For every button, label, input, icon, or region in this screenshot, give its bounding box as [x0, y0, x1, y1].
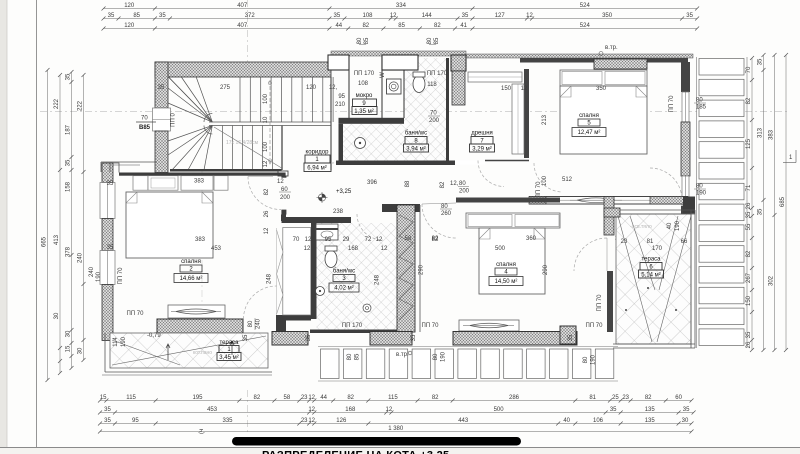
svg-text:ПП 70: ПП 70: [586, 323, 604, 329]
bath8 tiles upper: [404, 58, 446, 124]
vent block bedroom5: [594, 59, 647, 69]
door arc bedroom5 terrace: [650, 168, 682, 200]
svg-text:100: 100: [263, 93, 269, 104]
wall seg bedroom5 bottom left: [529, 197, 546, 205]
pier block A: [328, 55, 349, 70]
svg-text:35: 35: [66, 159, 72, 166]
svg-text:383: 383: [769, 129, 775, 140]
svg-text:30: 30: [54, 312, 60, 319]
svg-text:23: 23: [301, 418, 308, 424]
svg-text:12: 12: [376, 237, 383, 243]
svg-text:23: 23: [301, 395, 308, 401]
svg-text:30: 30: [78, 347, 84, 354]
svg-text:12: 12: [526, 13, 533, 19]
wall corridor bottom: [282, 217, 352, 223]
svg-text:82: 82: [254, 395, 261, 401]
svg-text:82: 82: [347, 395, 354, 401]
svg-text:14,50 м²: 14,50 м²: [495, 279, 518, 285]
svg-text:82: 82: [362, 23, 369, 29]
svg-text:126: 126: [336, 418, 347, 424]
svg-text:524: 524: [580, 23, 591, 29]
svg-text:82: 82: [432, 395, 439, 401]
svg-text:95: 95: [325, 237, 332, 243]
svg-text:1 380: 1 380: [388, 426, 404, 432]
right bracket mark: [783, 162, 796, 164]
svg-text:240: 240: [89, 266, 95, 277]
parapet strip middle: [331, 51, 466, 56]
window bedroom5 right 1: [682, 92, 689, 122]
svg-text:238: 238: [333, 209, 344, 215]
svg-text:248: 248: [375, 274, 381, 285]
svg-text:+3,25: +3,25: [336, 189, 352, 195]
svg-text:40: 40: [563, 418, 570, 424]
pier block B redraw: [382, 55, 418, 70]
svg-text:85: 85: [364, 37, 370, 44]
svg-text:407: 407: [237, 3, 248, 9]
wall stair left upper: [155, 62, 168, 108]
pier block B: [382, 55, 418, 70]
wall bedroom4 right top: [604, 197, 614, 236]
washing machine: [387, 79, 402, 94]
bed4 note top: [440, 208, 452, 210]
svg-text:95: 95: [132, 418, 139, 424]
svg-text:114: 114: [113, 337, 119, 347]
svg-text:82: 82: [264, 188, 270, 195]
svg-text:35: 35: [104, 407, 111, 413]
svg-text:190: 190: [441, 351, 447, 362]
svg-text:80: 80: [433, 353, 439, 360]
svg-text:115: 115: [126, 395, 136, 401]
sheet border left: [36, 0, 38, 448]
dimension columns right: [751, 58, 753, 350]
svg-text:453: 453: [211, 246, 222, 252]
parapet strip right: [466, 54, 693, 58]
svg-text:85: 85: [355, 353, 361, 360]
door arc wardrobe7: [478, 161, 504, 187]
wall bedroom2 corner SE: [276, 315, 311, 321]
wall bedroom5 right upper: [681, 62, 690, 92]
wardrobe7 wall bottom: [455, 161, 485, 165]
svg-text:12: 12: [390, 13, 397, 19]
svg-text:158: 158: [66, 181, 72, 192]
svg-text:30: 30: [682, 418, 689, 424]
svg-text:290: 290: [543, 264, 549, 275]
wall seg bedroom5 bottom right: [650, 197, 688, 205]
bath3 toilet: [325, 251, 337, 268]
svg-text:41: 41: [460, 23, 467, 29]
svg-text:тераса: тераса: [641, 257, 661, 263]
svg-text:135: 135: [645, 407, 656, 413]
svg-text:82: 82: [434, 23, 441, 29]
svg-text:524: 524: [580, 3, 591, 9]
sill mid 1: [272, 332, 308, 346]
dimension row top 1: [104, 8, 698, 10]
wall bedroom4 left: [419, 205, 421, 332]
top window labels A: [359, 44, 366, 46]
svg-text:ПП 70: ПП 70: [127, 311, 145, 317]
terrace6 right rail: [690, 210, 692, 348]
svg-text:168: 168: [345, 407, 356, 413]
svg-text:185: 185: [696, 105, 707, 111]
svg-text:200: 200: [429, 118, 440, 124]
svg-text:12: 12: [277, 179, 284, 185]
svg-text:334: 334: [396, 3, 407, 9]
svg-text:35: 35: [610, 407, 617, 413]
svg-text:35: 35: [758, 58, 764, 65]
svg-text:512: 512: [562, 177, 573, 183]
svg-text:413: 413: [54, 234, 60, 245]
bed4 body: [479, 228, 545, 294]
svg-text:210: 210: [335, 102, 346, 108]
svg-text:35: 35: [107, 245, 114, 251]
bath3 drain: [363, 304, 371, 312]
sill plant bedroom5: [577, 198, 615, 203]
terrace2 boundary: [104, 333, 106, 372]
bed5 body: [560, 86, 647, 154]
wall bedroom5 bottom: [529, 196, 688, 198]
svg-text:350: 350: [596, 86, 607, 92]
terrace6 note: [620, 242, 632, 244]
bath8 toilet: [413, 76, 425, 93]
wardrobe7 closet side: [512, 84, 524, 154]
svg-text:ПП 70: ПП 70: [118, 267, 124, 285]
svg-text:1,35 м²: 1,35 м²: [354, 109, 373, 115]
svg-text:195: 195: [192, 395, 203, 401]
wall jog left: [101, 161, 157, 163]
svg-text:15: 15: [66, 345, 72, 352]
wall bedroom2 right stub: [281, 210, 286, 215]
svg-text:85: 85: [434, 37, 440, 44]
wall bedroom5 right mid: [681, 122, 690, 176]
svg-text:-0,79: -0,79: [147, 333, 161, 339]
wall bedroom5 top: [520, 58, 688, 63]
bath8 walls: [339, 118, 405, 124]
svg-text:44: 44: [335, 23, 342, 29]
svg-text:60: 60: [281, 187, 288, 193]
svg-text:81: 81: [647, 239, 654, 245]
bath3 tiles: [317, 223, 398, 330]
wall bedroom4 top: [456, 198, 560, 203]
svg-text:120: 120: [306, 85, 317, 91]
svg-text:35: 35: [306, 334, 312, 341]
svg-text:80: 80: [357, 37, 363, 44]
svg-text:443: 443: [458, 418, 469, 424]
svg-text:баня/wc: баня/wc: [333, 269, 355, 275]
svg-text:187: 187: [66, 124, 72, 135]
dimension row bottom 3: [100, 423, 692, 425]
svg-text:35: 35: [104, 418, 111, 424]
wall terrace6 corner NE: [683, 197, 695, 214]
svg-text:286: 286: [509, 395, 520, 401]
svg-text:в.тр.: в.тр.: [396, 352, 409, 358]
svg-text:168: 168: [348, 246, 359, 252]
svg-text:12: 12: [521, 86, 528, 92]
svg-text:ПП 170: ПП 170: [354, 71, 375, 77]
svg-text:80: 80: [441, 204, 448, 210]
svg-text:190: 190: [696, 191, 707, 197]
svg-text:РАЗПРЕДЕЛЕНИЕ НА КОТА +3.25: РАЗПРЕДЕЛЕНИЕ НА КОТА +3.25: [262, 450, 449, 454]
svg-text:383: 383: [195, 237, 206, 243]
svg-text:58: 58: [405, 236, 412, 242]
svg-text:95: 95: [338, 94, 345, 100]
closet row bedroom2: [133, 176, 148, 191]
wall stair left lower: [155, 131, 168, 173]
svg-text:12: 12: [308, 395, 315, 401]
sill mid 3: [453, 332, 577, 346]
svg-text:80: 80: [427, 37, 433, 44]
svg-text:80: 80: [583, 356, 589, 363]
svg-text:ПП 70: ПП 70: [669, 95, 675, 113]
staircase: [330, 77, 332, 170]
room mokro walls: [348, 70, 350, 118]
svg-text:248: 248: [266, 273, 272, 284]
svg-text:396: 396: [367, 180, 378, 186]
door arc bedroom2 upper: [248, 177, 281, 210]
svg-text:12,: 12,: [450, 181, 459, 187]
svg-text:12: 12: [386, 407, 393, 413]
svg-text:W: W: [380, 72, 386, 78]
svg-text:35: 35: [334, 13, 341, 19]
entry door arc: [331, 130, 364, 163]
svg-text:222: 222: [78, 100, 84, 111]
svg-text:ПП 70: ПП 70: [536, 181, 542, 199]
svg-text:170: 170: [652, 246, 663, 252]
window stair left: [153, 108, 171, 131]
svg-text:12,: 12,: [329, 85, 338, 91]
svg-text:кот.пано: кот.пано: [193, 350, 212, 356]
bath3 counter: [316, 224, 338, 240]
svg-text:ПП 70: ПП 70: [597, 294, 603, 312]
bed2 body: [126, 192, 213, 258]
svg-text:ПП 170: ПП 170: [427, 71, 448, 77]
svg-text:82: 82: [645, 395, 652, 401]
svg-text:70: 70: [141, 116, 148, 122]
svg-text:190: 190: [675, 220, 681, 231]
svg-text:15: 15: [100, 395, 107, 401]
bed4 headboard: [466, 213, 560, 228]
svg-text:35: 35: [107, 181, 114, 187]
svg-text:35: 35: [158, 85, 165, 91]
svg-text:29: 29: [343, 237, 350, 243]
svg-text:35: 35: [243, 334, 249, 341]
terrace6 drain dots: [647, 287, 649, 289]
svg-text:200: 200: [280, 195, 291, 201]
svg-text:378: 378: [66, 246, 72, 257]
svg-text:407: 407: [237, 23, 248, 29]
svg-text:60: 60: [675, 395, 682, 401]
svg-text:58: 58: [284, 395, 291, 401]
svg-text:383: 383: [194, 179, 205, 185]
svg-text:В85: В85: [139, 125, 151, 131]
svg-text:82: 82: [432, 236, 439, 242]
svg-text:213: 213: [542, 114, 548, 125]
sill mid 2: [370, 332, 412, 346]
svg-text:6,94 м²: 6,94 м²: [307, 166, 326, 172]
svg-text:3,29 м²: 3,29 м²: [472, 146, 491, 152]
svg-text:190: 190: [591, 354, 597, 365]
wardrobe bedroom2: [283, 228, 311, 316]
svg-text:335: 335: [222, 418, 233, 424]
svg-text:665: 665: [42, 236, 48, 247]
dimension row top 3: [104, 28, 698, 30]
svg-text:200: 200: [459, 189, 470, 195]
svg-text:35: 35: [108, 13, 115, 19]
wall bedroom5 left: [524, 69, 529, 158]
sheet border bottom: [0, 447, 800, 449]
svg-text:40: 40: [667, 222, 673, 229]
svg-text:453: 453: [207, 407, 218, 413]
svg-text:80: 80: [248, 320, 254, 327]
svg-text:12: 12: [308, 418, 315, 424]
svg-text:35: 35: [683, 407, 690, 413]
svg-text:спалня: спалня: [496, 262, 516, 268]
svg-text:685: 685: [780, 196, 786, 207]
svg-text:спалня: спалня: [579, 113, 599, 119]
svg-text:12: 12: [304, 246, 311, 252]
axis dashed vertical stair: [247, 0, 249, 64]
door arc bedroom4: [422, 204, 456, 238]
svg-text:144: 144: [422, 13, 433, 19]
svg-text:3,45 м²: 3,45 м²: [219, 355, 238, 361]
louvre slats bottom: [321, 349, 340, 379]
dimension row bottom 1: [100, 400, 692, 402]
svg-text:ПП 70: ПП 70: [422, 323, 440, 329]
axis dashed vertical bedroom2: [201, 170, 203, 368]
svg-text:12: 12: [308, 407, 315, 413]
bath3 sink: [316, 287, 325, 296]
svg-text:12: 12: [263, 160, 269, 167]
svg-text:500: 500: [495, 246, 506, 252]
svg-text:115: 115: [388, 395, 398, 401]
svg-text:82: 82: [440, 181, 446, 188]
dresser bedroom4: [459, 320, 519, 331]
svg-text:в.тр.: в.тр.: [605, 45, 618, 51]
svg-text:100: 100: [542, 175, 548, 186]
bath3 door arc: [357, 214, 383, 240]
svg-text:23: 23: [621, 239, 628, 245]
sill mid 4: [560, 326, 576, 344]
svg-text:35: 35: [568, 334, 574, 341]
svg-text:3,94 м²: 3,94 м²: [406, 146, 425, 152]
svg-text:127: 127: [495, 13, 506, 19]
window note right 2: [694, 188, 706, 190]
duct wall: [397, 205, 415, 332]
bath8 tiles lower: [343, 124, 446, 161]
svg-text:14,66 м²: 14,66 м²: [180, 276, 203, 282]
svg-text:150: 150: [501, 86, 512, 92]
svg-text:17x 16,4/28см: 17x 16,4/28см: [226, 140, 259, 146]
wall bedroom2 left bottom: [102, 285, 113, 341]
svg-text:12: 12: [381, 246, 388, 252]
terrace6 tiles: [616, 214, 691, 344]
wall bedroom5 right lower: [681, 206, 690, 214]
svg-text:26: 26: [264, 210, 270, 217]
svg-text:135: 135: [645, 418, 656, 424]
wall bedroom2 left mid: [102, 219, 113, 251]
svg-text:35: 35: [686, 13, 693, 19]
door arc bedroom5 left: [534, 163, 562, 192]
wall bath3 top right: [382, 204, 420, 212]
svg-text:80: 80: [696, 184, 703, 190]
wall bedroom4 right bottom: [607, 271, 613, 332]
wall stair top: [155, 62, 331, 77]
window bedroom5 right 2: [682, 176, 689, 206]
svg-text:дрешня: дрешня: [471, 131, 493, 137]
bed5 headboard: [560, 70, 647, 86]
svg-text:88: 88: [405, 180, 411, 187]
sill bedroom2 bottom: [157, 319, 243, 333]
svg-text:372: 372: [245, 13, 256, 19]
svg-text:80: 80: [696, 98, 703, 104]
svg-text:350: 350: [602, 13, 613, 19]
axis dashed vertical bottom: [247, 390, 249, 432]
svg-text:302: 302: [769, 275, 775, 286]
svg-text:ПП 0: ПП 0: [171, 113, 177, 127]
svg-text:120: 120: [124, 23, 135, 29]
bath8 sink: [355, 138, 366, 149]
svg-text:4,02 м²: 4,02 м²: [334, 286, 353, 292]
svg-text:ПП 170: ПП 170: [342, 323, 363, 329]
scan edge strip: [0, 0, 7, 454]
svg-text:12: 12: [264, 227, 270, 234]
svg-text:-осв.тяло: -осв.тяло: [630, 224, 652, 230]
terrace6 top lines: [620, 209, 695, 211]
window note right 1: [694, 102, 706, 104]
svg-text:35: 35: [159, 13, 166, 19]
window bedroom2 left 2: [100, 251, 115, 285]
svg-text:290: 290: [419, 264, 425, 275]
dimension row bottom total: [100, 431, 692, 433]
terrace2 tiles: [110, 333, 268, 368]
bath3 walls: [311, 223, 317, 320]
dimension row top 2: [104, 18, 698, 20]
svg-text:12,47 м²: 12,47 м²: [578, 130, 601, 136]
svg-text:240: 240: [78, 252, 84, 263]
terrace6 bottom rail: [613, 343, 695, 345]
dresser bedroom2: [168, 305, 225, 318]
terrace6 slope lines: [618, 216, 691, 342]
wall bedroom2 top corner: [110, 163, 119, 173]
svg-text:106: 106: [593, 418, 604, 424]
svg-text:108: 108: [358, 81, 369, 87]
svg-text:118: 118: [427, 82, 437, 88]
svg-text:70: 70: [430, 111, 437, 117]
svg-text:35: 35: [758, 208, 764, 215]
svg-text:222: 222: [54, 98, 60, 109]
svg-text:12: 12: [305, 237, 312, 243]
svg-text:190: 190: [121, 336, 127, 347]
svg-text:10: 10: [263, 116, 269, 123]
svg-text:360: 360: [526, 236, 537, 242]
svg-text:мокро: мокро: [356, 93, 373, 99]
window bedroom2 left 1: [100, 183, 115, 219]
svg-text:23: 23: [622, 395, 629, 401]
dimension columns left: [47, 70, 49, 380]
wall bedroom2 right lower: [281, 215, 286, 222]
axis dashed horizontal: [40, 111, 788, 113]
pier block C hatched: [451, 55, 466, 71]
svg-text:баня/wc: баня/wc: [405, 131, 427, 137]
terrace6 top sill: [604, 208, 620, 217]
svg-text:108: 108: [362, 13, 373, 19]
top window labels B: [429, 44, 436, 46]
level mark 70 B85: [136, 121, 156, 123]
wall bedroom2 left top: [102, 163, 113, 183]
title redaction bar: [232, 437, 521, 446]
svg-text:спалня: спалня: [181, 259, 201, 265]
svg-text:313: 313: [758, 127, 764, 138]
svg-text:35: 35: [66, 73, 72, 80]
